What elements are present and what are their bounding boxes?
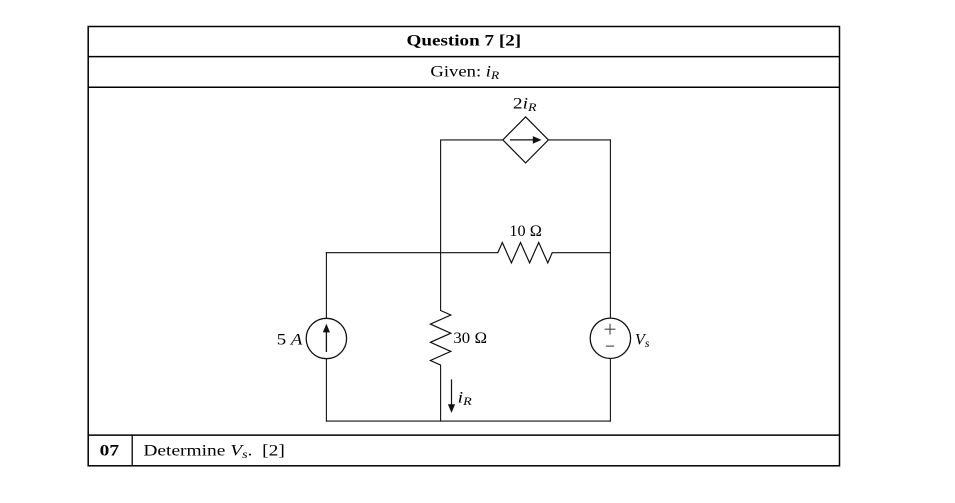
wire right branch upper — [609, 140, 611, 318]
wire middle branch lower — [440, 365, 442, 421]
wire bottom — [326, 420, 610, 422]
svg-text:07: 07 — [100, 442, 119, 459]
resistor R1 10ohm zigzag — [498, 243, 552, 263]
svg-text:5 A: 5 A — [277, 332, 303, 349]
svg-text:Given: iR: Given: iR — [430, 63, 499, 82]
svg-text:Question 7 [2]: Question 7 [2] — [407, 32, 522, 49]
svg-text:30 Ω: 30 Ω — [453, 330, 487, 347]
resistor R2 30ohm zigzag — [430, 311, 450, 366]
table row line 1 — [88, 56, 839, 58]
table row line 2 — [88, 86, 839, 88]
current source I1 circle — [306, 318, 346, 358]
svg-text:10 Ω: 10 Ω — [509, 223, 542, 240]
current source arrow up — [323, 324, 330, 352]
dependent source U1 diamond 2iR — [503, 117, 549, 163]
wire top-left segment — [441, 140, 503, 311]
wire left branch upper — [325, 253, 327, 319]
voltage source V1 circle — [590, 318, 630, 358]
svg-text:Determine Vs. [2]: Determine Vs. [2] — [143, 442, 284, 461]
wire middle horizontal left — [326, 252, 497, 254]
wire left branch lower — [325, 359, 327, 421]
dependent source arrow — [510, 136, 542, 144]
current annotation iR arrow — [448, 379, 455, 413]
voltage source plus sign — [605, 324, 616, 346]
voltage source minus sign — [606, 345, 614, 347]
table row line 3 — [88, 434, 839, 436]
wire right branch lower — [609, 359, 611, 422]
wire top-right segment — [548, 139, 610, 141]
table bottom row divider — [131, 435, 133, 466]
table outer border — [88, 27, 839, 466]
wire middle horizontal right — [552, 252, 610, 254]
